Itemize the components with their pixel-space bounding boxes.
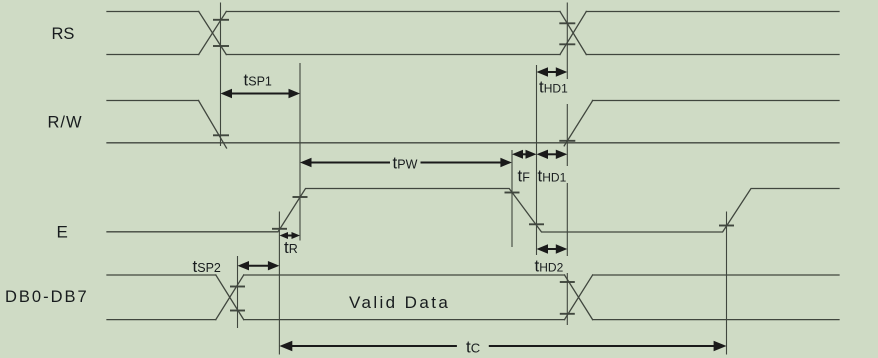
svg-text:Valid Data: Valid Data <box>349 293 450 312</box>
svg-text:RS: RS <box>52 25 75 43</box>
svg-text:E: E <box>57 223 68 242</box>
svg-text:tC: tC <box>466 338 480 357</box>
svg-text:R/W: R/W <box>48 114 83 132</box>
svg-text:DB0-DB7: DB0-DB7 <box>5 288 89 306</box>
